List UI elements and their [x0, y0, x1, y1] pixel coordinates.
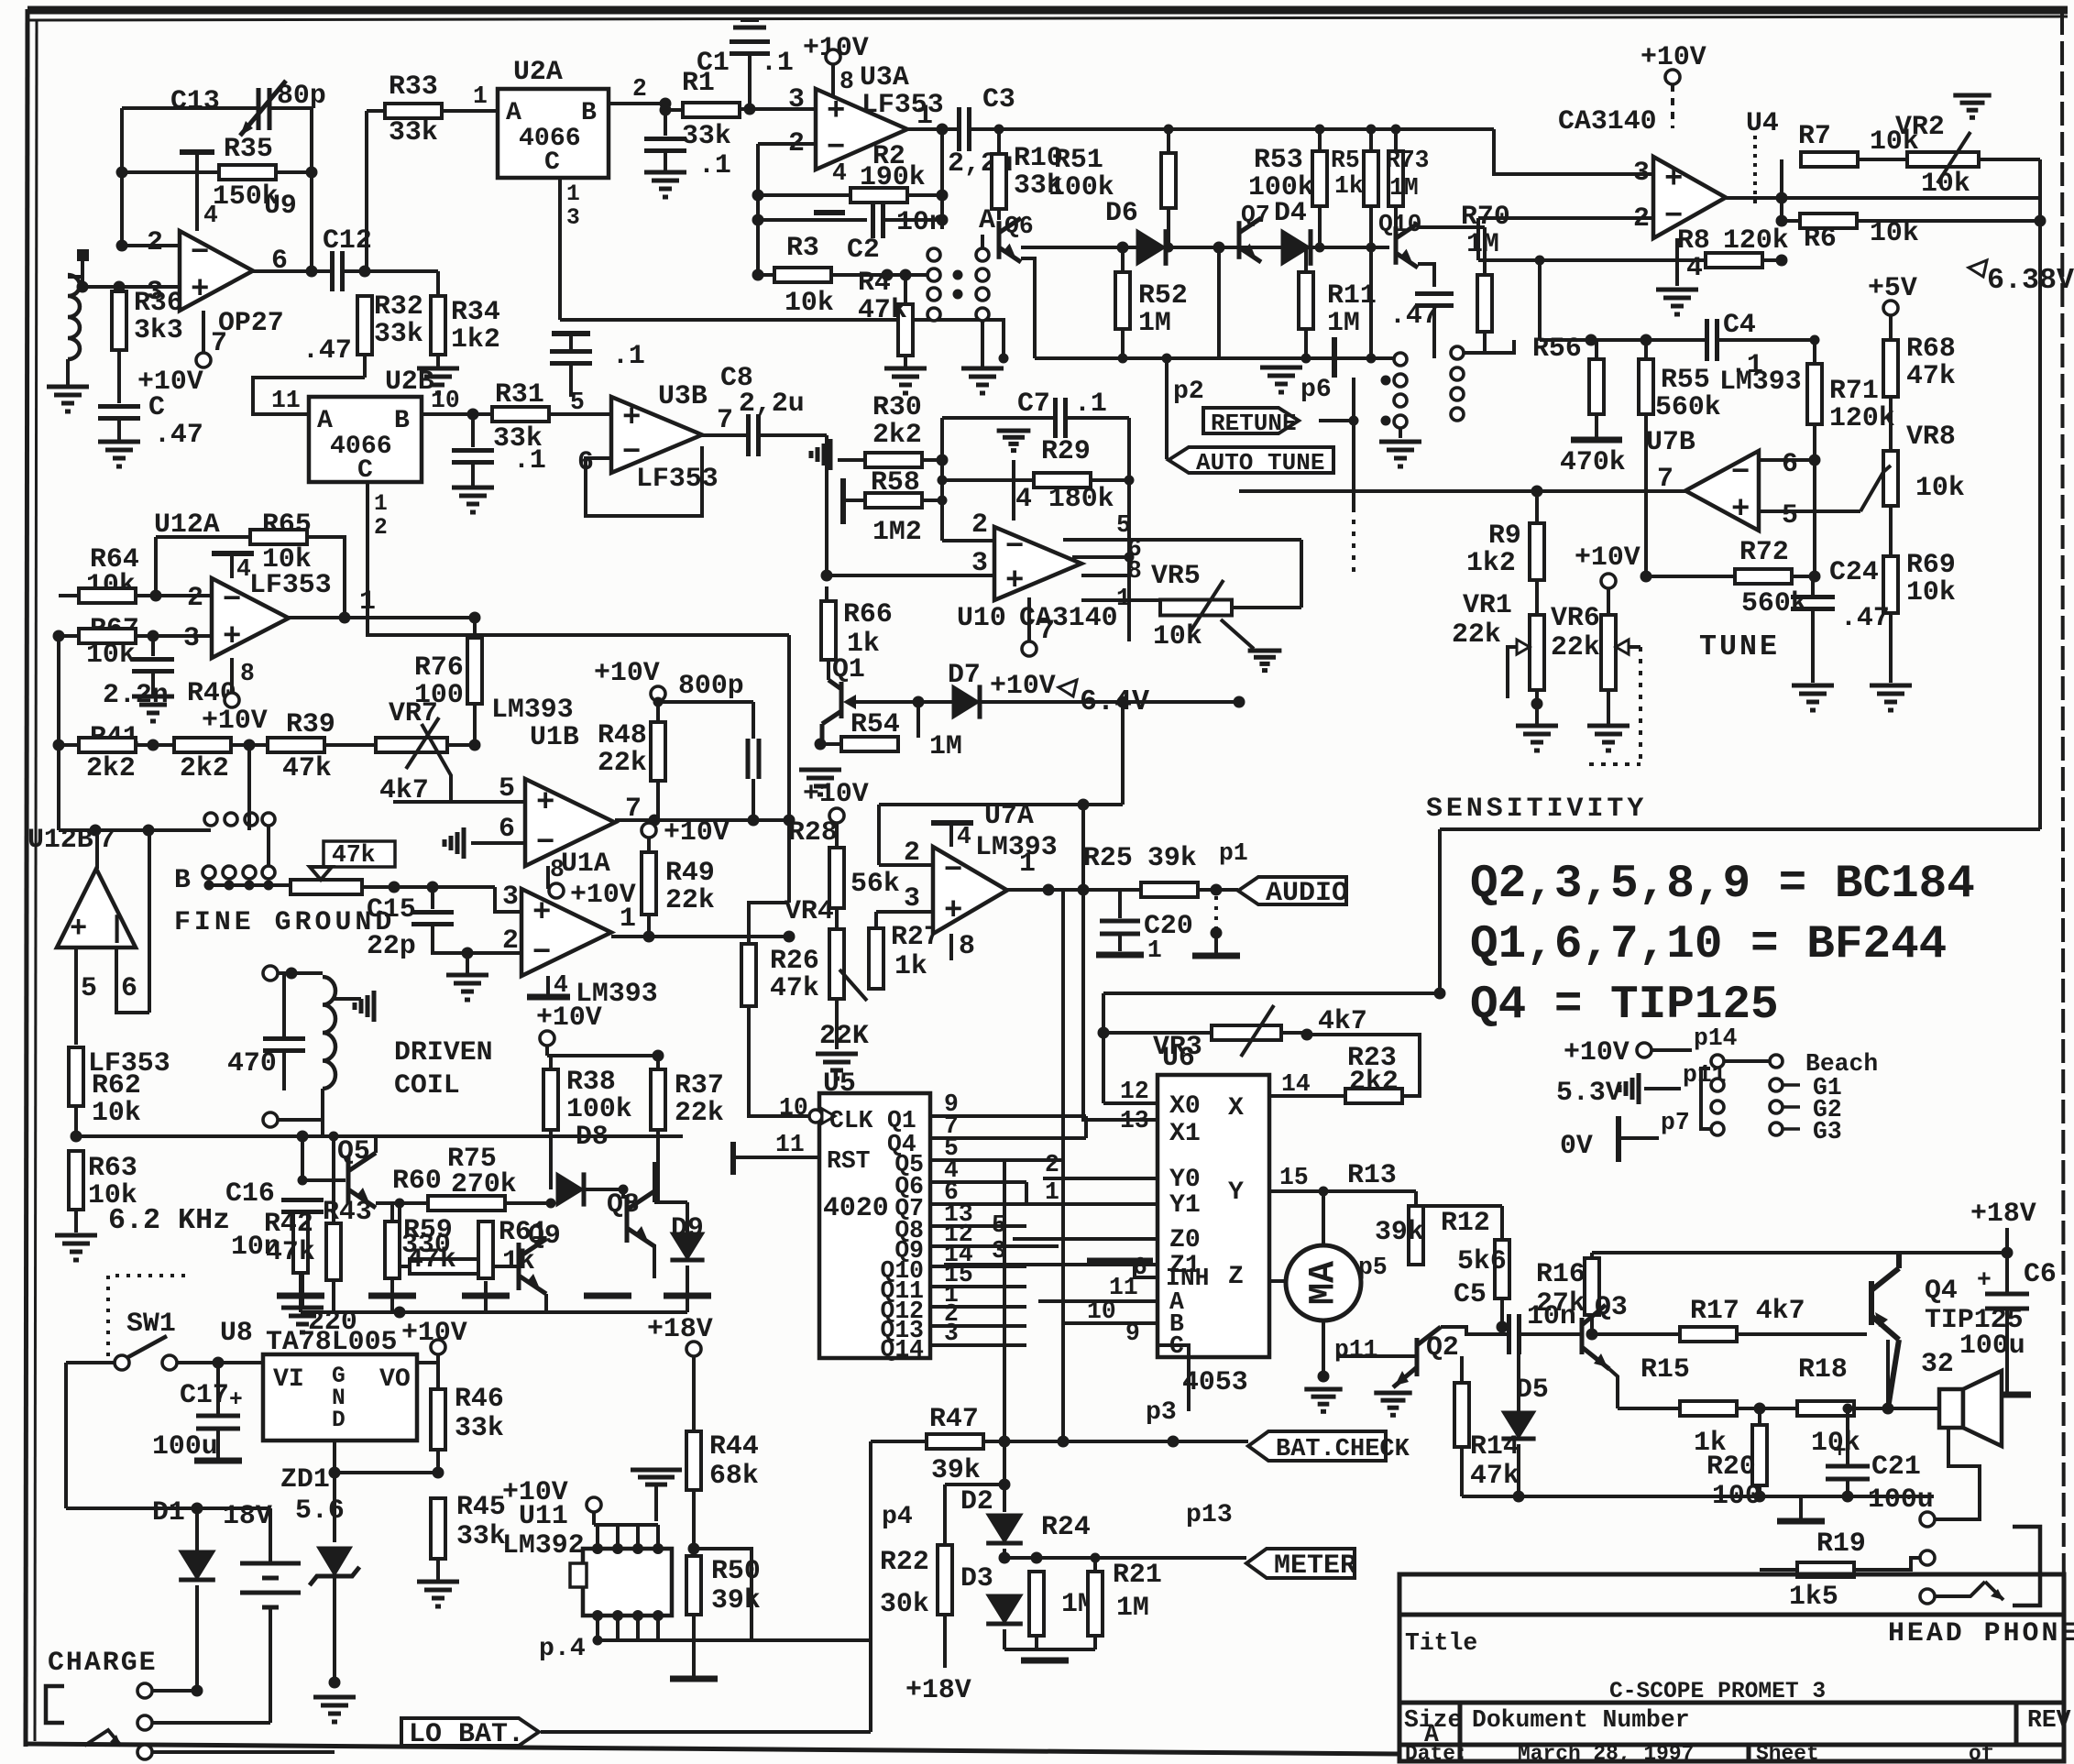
svg-text:5: 5 — [499, 772, 515, 804]
wire pin11 A — [1038, 1299, 1158, 1303]
wire R54 left — [820, 742, 843, 746]
wire Q3 base — [1569, 1332, 1582, 1336]
svg-text:6.4V: 6.4V — [1080, 685, 1149, 718]
connector pin top 4 — [262, 813, 275, 826]
svg-text:11: 11 — [271, 387, 301, 414]
resistor R5 — [1312, 151, 1327, 206]
wire R37 top — [656, 1056, 660, 1070]
wire p1 dashed — [1214, 896, 1218, 933]
wire C5 left — [1502, 1332, 1509, 1336]
wire R32 bottom — [363, 355, 367, 378]
wire R72 right — [1792, 575, 1815, 578]
47k label box — [324, 841, 395, 867]
wire C16 to ground — [301, 1212, 304, 1306]
wire R2 right — [907, 193, 942, 197]
junction — [1809, 455, 1821, 466]
svg-text:Q2,3,5,8,9 = BC184: Q2,3,5,8,9 = BC184 — [1470, 859, 1975, 911]
svg-text:HEAD PHONE: HEAD PHONE — [1888, 1617, 2074, 1649]
svg-text:Q1,6,7,10 = BF244: Q1,6,7,10 = BF244 — [1470, 919, 1947, 971]
jack contact 1658 — [1920, 1512, 1935, 1527]
wire R76 bottom — [473, 704, 477, 745]
wire R71 top — [1813, 340, 1816, 364]
svg-text:5: 5 — [81, 972, 97, 1003]
U11 pin stubs — [598, 1525, 658, 1640]
wire Q5 — [930, 1158, 1063, 1162]
svg-text:COIL: COIL — [394, 1069, 460, 1101]
resistor R67 — [79, 629, 136, 643]
svg-text:56k: 56k — [850, 868, 900, 899]
resistor R58 — [865, 493, 922, 508]
wire R8 left — [1478, 258, 1706, 262]
wire C21 bottom — [1846, 1479, 1849, 1496]
ground at coil — [355, 991, 374, 1022]
resistor R10 — [992, 154, 1006, 209]
wire to B row — [59, 828, 211, 832]
diode D4 — [1281, 229, 1311, 266]
wire jack3 rail — [152, 1750, 335, 1754]
svg-text:10n: 10n — [896, 206, 946, 237]
wire R23 left — [1269, 1094, 1344, 1098]
transistor Q5 — [348, 1153, 376, 1208]
svg-text:U9: U9 — [264, 190, 297, 221]
wire R32 to U2B pin11 — [253, 378, 365, 414]
bar at R58 — [840, 478, 846, 524]
svg-text:R60: R60 — [392, 1165, 442, 1196]
transistor Q1 — [822, 680, 841, 740]
wire pin4 U1A — [546, 976, 550, 997]
wire Q8 — [930, 1224, 1026, 1228]
junction — [937, 455, 949, 466]
resistor R66 — [821, 601, 836, 660]
svg-text:R61: R61 — [499, 1216, 548, 1247]
wire R17 right — [1738, 1332, 1867, 1336]
wire R22 link — [945, 1483, 1004, 1486]
svg-text:C5: C5 — [1454, 1278, 1487, 1309]
junction — [1098, 1027, 1110, 1039]
wire Q12 — [930, 1305, 1026, 1309]
resistor R47 — [927, 1434, 983, 1449]
svg-text:Z: Z — [1228, 1263, 1244, 1291]
wire Q14 — [930, 1343, 1026, 1347]
capacitor C20 — [1100, 921, 1140, 934]
wire pin6 U1B — [471, 841, 525, 845]
wire Q2 base — [1338, 1354, 1417, 1358]
wire R59 top — [390, 1203, 394, 1222]
svg-text:MA: MA — [1304, 1261, 1345, 1305]
wire loop down — [877, 805, 881, 865]
wire Q10 source — [1418, 264, 1434, 287]
svg-text:7: 7 — [99, 824, 115, 855]
VR7 wiper link — [422, 724, 451, 802]
wire C2 right — [883, 218, 942, 222]
ground under R34 — [417, 368, 459, 393]
svg-text:LM393: LM393 — [975, 831, 1058, 862]
wire R15 right — [1738, 1407, 1796, 1410]
junction — [937, 190, 949, 202]
wire pin6 — [1072, 555, 1129, 559]
wire coil tap — [334, 997, 361, 1001]
wire R5 bottom — [1318, 206, 1322, 247]
svg-text:SENSITIVITY: SENSITIVITY — [1426, 793, 1647, 824]
wire ladder far right — [1371, 356, 1400, 360]
junction — [1434, 988, 1446, 1000]
resistor R64 — [79, 588, 136, 603]
ground under Q1 — [799, 770, 841, 794]
svg-text:p2: p2 — [1173, 378, 1204, 406]
wire left rail psu — [64, 1363, 68, 1508]
svg-text:G: G — [332, 1364, 346, 1389]
wire C15 to pin2 — [433, 925, 521, 953]
ground bar p1 — [1192, 953, 1240, 959]
wire R52 top — [1121, 247, 1125, 271]
svg-text:13: 13 — [1120, 1107, 1149, 1134]
resistor R17 — [1680, 1327, 1737, 1342]
svg-text:3: 3 — [904, 882, 920, 914]
svg-text:R43: R43 — [323, 1196, 372, 1227]
wire R39 to VR7 — [324, 743, 378, 747]
junction R32 top — [359, 266, 371, 278]
wire R65 left — [154, 537, 158, 596]
wire R17 left — [1592, 1332, 1680, 1336]
switch contact right — [162, 1355, 177, 1370]
svg-text:1M: 1M — [929, 730, 962, 761]
wire loop top — [1440, 827, 2040, 831]
wire R29 left — [942, 478, 1034, 482]
wire C7 right — [1066, 416, 1129, 420]
svg-text:p11: p11 — [1334, 1336, 1378, 1364]
ground U4 — [1656, 290, 1698, 314]
wire to pin2 U10 — [942, 539, 994, 542]
ground under connector — [1379, 442, 1421, 466]
jack arrow — [1985, 1582, 2003, 1600]
wire C4 row left — [1540, 338, 1706, 342]
svg-text:U1B: U1B — [530, 721, 579, 752]
wire C24 top — [1811, 576, 1815, 597]
junction — [752, 214, 764, 226]
op-amp U3B LF353 — [611, 397, 702, 473]
svg-text:6.2 KHz: 6.2 KHz — [108, 1204, 230, 1237]
wire R69 to ground — [1889, 613, 1893, 683]
svg-text:VI: VI — [273, 1365, 304, 1394]
wire U11 out — [598, 1638, 871, 1642]
svg-text:−: − — [944, 854, 962, 889]
junction — [688, 1543, 700, 1555]
ground bar D9 — [664, 1293, 711, 1299]
ground ZD1 — [313, 1697, 356, 1722]
ground p11 — [1619, 1073, 1639, 1104]
wire gnd stub U11 — [654, 1485, 658, 1521]
junction p5 — [1335, 1276, 1345, 1287]
svg-text:+18V: +18V — [1970, 1198, 2036, 1229]
svg-text:7: 7 — [717, 404, 733, 435]
wire U7B out — [1239, 489, 1685, 493]
junction — [1164, 243, 1174, 253]
wire Q10 to R70 — [1418, 225, 1485, 229]
resistor R45 — [431, 1498, 445, 1559]
junction — [53, 740, 65, 751]
svg-text:30k: 30k — [880, 1588, 929, 1619]
resistor R60 330 — [410, 1259, 487, 1274]
svg-text:6: 6 — [121, 972, 137, 1003]
wire C8 out — [761, 433, 827, 437]
svg-text:.47: .47 — [154, 419, 203, 450]
wire VR3 right — [1281, 1031, 1307, 1035]
svg-text:C16: C16 — [225, 1178, 275, 1209]
wire R22 bottom — [943, 1615, 947, 1668]
svg-text:D: D — [332, 1408, 346, 1433]
wire R48 top — [656, 701, 660, 722]
svg-text:100: 100 — [414, 679, 464, 710]
svg-text:REV: REV — [2027, 1706, 2071, 1734]
wire Z pin4 — [1269, 1279, 1329, 1283]
pin dot bottom 718 — [653, 1610, 664, 1621]
svg-text:100: 100 — [1712, 1480, 1761, 1511]
wire right rail — [2038, 198, 2042, 829]
svg-text:TUNE: TUNE — [1699, 630, 1780, 663]
junction 800p wire — [653, 697, 664, 707]
svg-text:U10: U10 — [957, 602, 1006, 633]
wire — [436, 1354, 440, 1363]
wire pin10 B — [1063, 1321, 1158, 1325]
junction — [1754, 1491, 1766, 1503]
wire node A down — [981, 321, 984, 367]
svg-text:3: 3 — [971, 547, 988, 578]
wire 800p bottom — [752, 779, 755, 820]
resistor R8 — [1706, 253, 1762, 268]
wire jog2 — [1084, 1116, 1088, 1138]
resistor R51 — [1161, 153, 1176, 208]
junction — [389, 882, 401, 893]
junction — [660, 98, 672, 110]
svg-text:C17: C17 — [180, 1379, 229, 1410]
svg-text:VR5: VR5 — [1151, 560, 1201, 591]
wire pin5 U1B — [393, 800, 525, 804]
svg-text:22k: 22k — [598, 747, 647, 778]
svg-text:LM392: LM392 — [502, 1529, 585, 1561]
junction — [1366, 354, 1377, 364]
svg-text:1: 1 — [359, 586, 376, 617]
VR8 wiper — [1860, 466, 1891, 511]
wire Q4 — [930, 1136, 1086, 1140]
wire C24 bottom — [1811, 609, 1815, 683]
wire to ground — [471, 463, 475, 486]
wire R34 to ground — [436, 355, 440, 367]
resistor R20 — [1752, 1425, 1767, 1485]
multiplexer U6 4053 — [1158, 1075, 1269, 1357]
svg-text:−: − — [532, 936, 551, 970]
wire D5 top — [1517, 1334, 1520, 1411]
wire pin7 U10 — [1027, 597, 1031, 641]
junction — [148, 630, 159, 642]
junction — [1319, 1187, 1329, 1197]
svg-text:18V: 18V — [223, 1500, 272, 1531]
speaker — [1939, 1389, 1963, 1428]
svg-text:METER: METER — [1274, 1550, 1356, 1582]
junction — [1366, 243, 1377, 253]
wire R67 to pin3 — [136, 634, 212, 638]
bar above C1 — [733, 26, 766, 30]
junction — [192, 1685, 203, 1697]
wire coil top — [68, 275, 82, 279]
svg-text:p.4: p.4 — [539, 1635, 586, 1663]
junction — [1810, 335, 1820, 345]
wire pin2 down — [1476, 218, 1480, 260]
connector pin g2 4 — [1451, 408, 1464, 421]
resistor R34 — [431, 296, 445, 355]
svg-text:A: A — [317, 407, 333, 435]
svg-text:R76: R76 — [414, 652, 464, 683]
diode D8 — [556, 1172, 584, 1206]
resistor R52 — [1115, 272, 1130, 329]
ground bar C17 — [194, 1458, 242, 1464]
junction — [999, 1479, 1011, 1491]
svg-text:2: 2 — [374, 516, 388, 541]
resistor R26 — [741, 944, 756, 1006]
resistor R1 — [683, 103, 740, 117]
svg-text:R72: R72 — [1739, 536, 1789, 567]
junction pin3 — [77, 281, 89, 293]
pin 4 bar U9 — [180, 149, 214, 155]
wire Q11 — [930, 1285, 1026, 1288]
resistor R42 — [293, 1212, 308, 1273]
wire pin6 — [1759, 458, 1815, 462]
svg-text:47k: 47k — [1470, 1460, 1520, 1491]
wire jack2 — [152, 1721, 270, 1725]
+10V terminal U11 — [587, 1497, 601, 1512]
junction B3 — [245, 881, 255, 891]
resistor R9 — [1530, 523, 1544, 580]
svg-text:.1: .1 — [698, 149, 731, 181]
wire R43 top — [332, 1136, 335, 1223]
wire Q1 to D7 — [852, 700, 952, 704]
wire — [321, 1089, 324, 1120]
svg-text:4: 4 — [957, 823, 971, 850]
resistor R53 — [1364, 151, 1378, 206]
potentiometer VR1 — [1530, 615, 1544, 690]
junction pin1 — [339, 612, 351, 624]
wire x1182 — [1081, 805, 1085, 1114]
wire down to U10 pin3 — [825, 435, 829, 575]
junction R9 — [1531, 486, 1543, 498]
wire R36 to C — [117, 350, 121, 403]
svg-text:+: + — [622, 400, 641, 435]
wire ladder bottom left — [1035, 356, 1219, 360]
svg-text:47k: 47k — [1906, 360, 1956, 391]
resistor R56 — [1589, 359, 1604, 414]
wire pin2 U3A — [758, 142, 816, 146]
junction — [2035, 215, 2047, 227]
wire dotted SW1 — [108, 1276, 188, 1356]
svg-text:U11: U11 — [519, 1500, 568, 1531]
junction — [619, 1185, 629, 1195]
wire R72 left — [1646, 575, 1735, 578]
ground bar R50 — [670, 1676, 718, 1682]
svg-text:CHARGE: CHARGE — [48, 1647, 158, 1678]
wire R48 bottom — [656, 781, 660, 820]
svg-text:R34: R34 — [451, 296, 500, 327]
wire Q3 emitter — [1609, 1369, 1618, 1408]
capacitor C12 — [333, 251, 343, 291]
junction — [1031, 1552, 1043, 1564]
ground under C16 — [281, 1308, 324, 1332]
junction — [143, 825, 155, 837]
wire coil top — [278, 971, 323, 975]
svg-text:AUDIO: AUDIO — [1266, 878, 1348, 909]
wire VR3 left — [1103, 1031, 1212, 1035]
wire pin8 U12A — [230, 658, 234, 693]
junction ladder x1090 — [994, 125, 1004, 135]
wire to R65 — [156, 535, 250, 539]
wire R41 left — [59, 743, 79, 747]
wire R28 top — [835, 823, 839, 848]
wire D9 bottom — [686, 1265, 689, 1312]
wire R38 top — [549, 1056, 553, 1070]
svg-text:SW1: SW1 — [126, 1308, 176, 1339]
svg-text:+: + — [532, 896, 551, 931]
svg-text:47k: 47k — [858, 294, 907, 325]
wire bottom join — [1004, 1648, 1095, 1651]
wire connector — [267, 826, 270, 866]
svg-text:VR1: VR1 — [1463, 589, 1512, 620]
svg-text:VR2: VR2 — [1895, 111, 1945, 142]
svg-text:U2B: U2B — [385, 366, 434, 397]
wire R26 to CLK — [749, 1006, 810, 1116]
junction — [1754, 1403, 1766, 1415]
wire cap .47 bottom — [1432, 306, 1436, 358]
wire beach stub 1208 — [1783, 1105, 1800, 1109]
wire ZD1 bottom — [333, 1578, 336, 1682]
svg-text:Q1: Q1 — [832, 653, 865, 685]
svg-text:R63: R63 — [88, 1152, 137, 1183]
svg-text:C2: C2 — [847, 234, 880, 265]
wire Q6 to D6 — [1021, 246, 1136, 249]
ground Q2 — [1374, 1393, 1411, 1415]
svg-text:12: 12 — [1120, 1078, 1149, 1105]
wire +18V rail — [1592, 1251, 2007, 1255]
junction ladder x1523 — [1391, 125, 1401, 135]
connector pin g2 2 — [1451, 367, 1464, 380]
diode D2 — [986, 1514, 1023, 1543]
junction — [1234, 696, 1245, 708]
wire D3 bottom — [1003, 1629, 1006, 1649]
wire R44 bottom — [692, 1490, 696, 1549]
wire pin3 — [82, 285, 180, 289]
beach pin left 2 — [1711, 1079, 1724, 1091]
wire C4 right — [1717, 338, 1815, 342]
svg-text:−: − — [1731, 455, 1750, 490]
svg-text:6: 6 — [499, 813, 515, 844]
wire battery top — [269, 1508, 272, 1563]
wire left rail — [57, 636, 60, 830]
svg-text:D8: D8 — [576, 1121, 609, 1152]
svg-text:10: 10 — [1087, 1298, 1116, 1325]
wire jack contact — [1935, 1582, 1985, 1596]
potentiometer VR5 — [1160, 600, 1232, 616]
svg-text:+10V: +10V — [1564, 1036, 1630, 1068]
svg-text:33k: 33k — [455, 1412, 504, 1443]
wire R4 bottom — [904, 356, 907, 367]
ground under cap — [452, 488, 494, 512]
wire VO — [417, 1361, 438, 1364]
svg-text:|: | — [108, 912, 126, 946]
inductor driven coil — [323, 977, 335, 1089]
junction — [1058, 1436, 1070, 1448]
svg-text:47k: 47k — [332, 841, 376, 869]
wire cap bottom — [282, 1052, 286, 1090]
svg-text:LO BAT.: LO BAT. — [409, 1719, 524, 1750]
svg-text:R17 4k7: R17 4k7 — [1690, 1295, 1805, 1326]
svg-text:120k: 120k — [1829, 402, 1895, 433]
